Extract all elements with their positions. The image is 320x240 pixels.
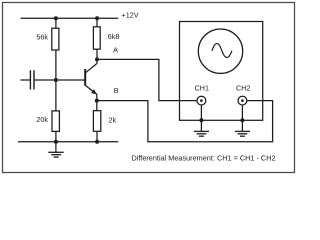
connector CH1 circle	[197, 96, 206, 105]
wire ground rail bottom	[18, 141, 118, 143]
resistor R4 2k body	[93, 111, 100, 132]
wire 2k bottom lead	[96, 131, 98, 142]
wire node B to CH2 around scope	[97, 101, 273, 142]
wire +12V top rail	[21, 17, 119, 19]
svg-text:56k: 56k	[36, 32, 48, 41]
ground symbol CH2	[235, 131, 250, 136]
sine wave symbol	[212, 44, 232, 58]
svg-text:CH2: CH2	[236, 84, 250, 93]
junction rail/56k	[54, 16, 58, 20]
capacitor C1 right plate	[33, 70, 35, 89]
junction rail/6k8	[95, 16, 99, 20]
junction node A	[95, 57, 99, 61]
svg-text:+12V: +12V	[122, 11, 139, 20]
wire base node to transistor base	[56, 79, 85, 81]
resistor R1 56k body	[52, 28, 59, 50]
wire 6k8 top lead	[96, 18, 98, 27]
oscilloscope screen circle with sine	[198, 29, 242, 73]
wire CH2 down to ground	[241, 105, 243, 131]
wire 56k bottom lead to base node	[55, 50, 57, 80]
wire node A horizontal	[97, 59, 197, 100]
capacitor C1 left plate	[29, 70, 31, 89]
connector CH2 center pin	[241, 99, 244, 102]
junction bottom rail/2k	[95, 140, 99, 144]
svg-text:CH1: CH1	[195, 84, 209, 93]
wire 6k8 bottom lead / collector lead	[96, 49, 98, 63]
wire capacitor to base node	[35, 79, 56, 81]
connector CH2 circle	[238, 96, 247, 105]
wire base node down to 20k	[55, 80, 57, 111]
svg-text:2k: 2k	[109, 116, 117, 125]
resistor R2 6k8 body	[93, 27, 100, 49]
transistor Q1 base bar	[84, 69, 86, 86]
oscilloscope box	[180, 22, 263, 121]
ground symbol bottom left	[48, 152, 63, 157]
ground symbol CH1	[194, 131, 209, 136]
junction node B	[95, 99, 99, 103]
svg-text:20k: 20k	[36, 115, 48, 124]
connector CH1 center pin	[200, 99, 203, 102]
border frame	[3, 3, 295, 173]
transistor Q1 collector diagonal	[86, 63, 97, 72]
wire emitter down to node B	[96, 94, 98, 111]
resistor R3 20k body	[52, 111, 59, 131]
svg-text:A: A	[113, 46, 118, 55]
svg-text:Differential Measurement: CH1: Differential Measurement: CH1 = CH1 - CH…	[132, 154, 276, 163]
junction bottom rail/ground	[54, 140, 58, 144]
junction CH1/box bottom	[199, 118, 203, 122]
transistor Q1 emitter arrow	[91, 89, 97, 94]
transistor Q1 emitter diagonal	[86, 86, 97, 95]
wire 20k bottom lead	[55, 131, 57, 141]
wire 56k top lead	[55, 18, 57, 28]
wire CH1 down to ground	[200, 105, 202, 131]
svg-text:B: B	[114, 86, 119, 95]
wire input left of capacitor	[20, 79, 30, 81]
junction CH2/box bottom	[240, 118, 244, 122]
junction base node	[54, 78, 58, 82]
svg-text:6k8: 6k8	[108, 32, 120, 41]
wire ground stem bottom left	[55, 142, 57, 152]
